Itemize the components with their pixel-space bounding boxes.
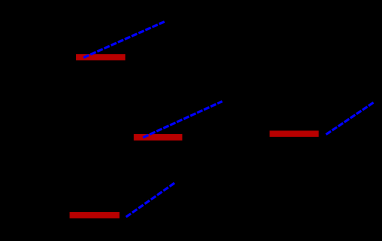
transition line 1 (from bar 1 up-right) <box>84 22 165 58</box>
transition line 3 (from bar 3 up-right) <box>326 103 374 135</box>
transition line 4 (from bar 4 up-right) <box>126 183 175 217</box>
transition line 2 (from bar 2 up-right) <box>143 101 222 137</box>
energy level bar 1 (upper left) <box>76 54 125 60</box>
energy level bar 2 (middle) <box>134 134 183 141</box>
energy level bar 3 (middle right) <box>270 131 319 137</box>
energy level bar 4 (bottom left) <box>70 212 120 218</box>
